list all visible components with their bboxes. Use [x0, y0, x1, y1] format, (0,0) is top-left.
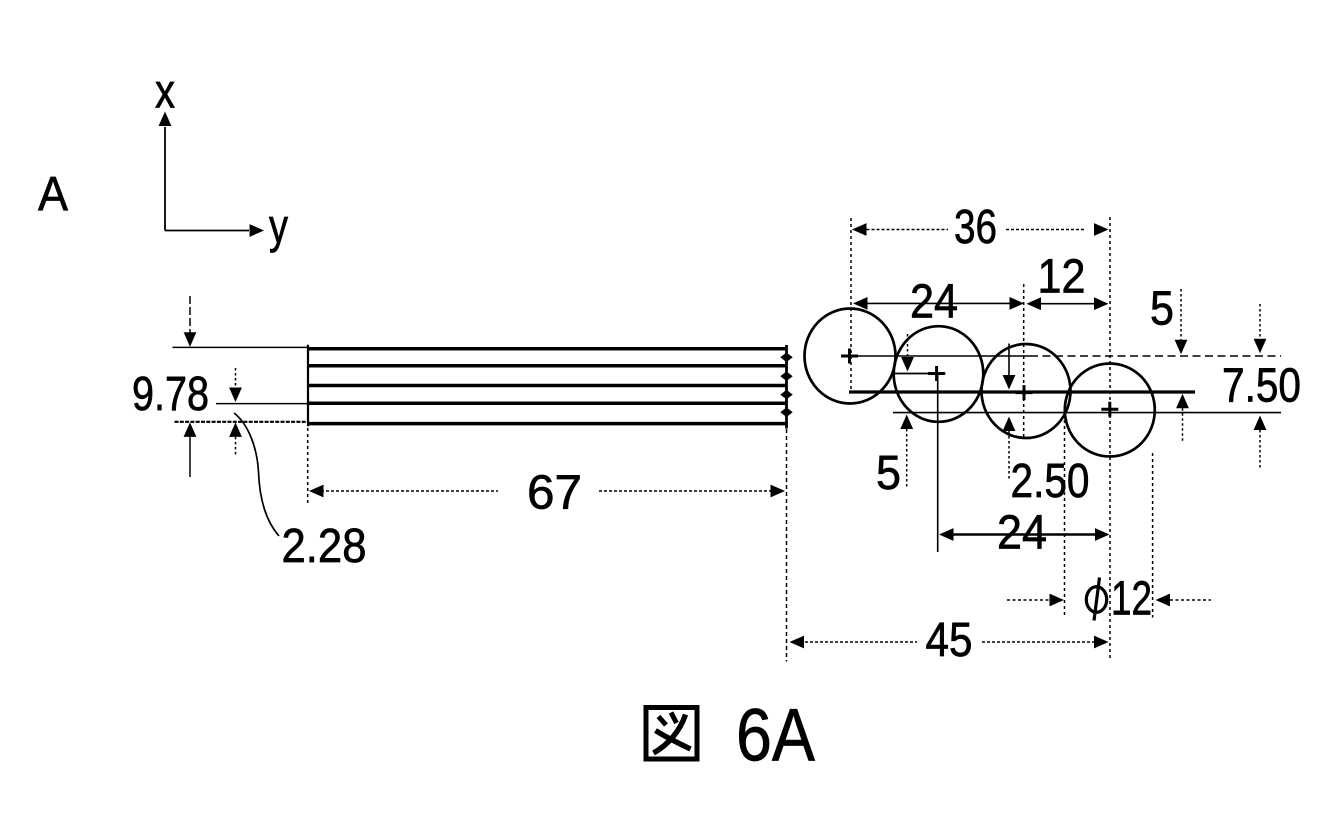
circle 4 (hole phi-12): [1065, 364, 1155, 457]
bar right edge diamond 4: [780, 407, 792, 417]
vertical extension at circle 3 centre x=1023.7: [1023, 284, 1025, 438]
dim 2.50 down arrowhead: [1003, 375, 1016, 390]
circle 2 center cross: [928, 366, 945, 381]
dim 36 line right segment: [1006, 229, 1086, 231]
vertical extension at circle 1 centre x=851: [850, 218, 852, 391]
dim 7.50 up arrowhead: [1254, 416, 1267, 431]
bar right edge diamond 3: [780, 390, 792, 400]
dim 36 left arrowhead: [852, 223, 867, 236]
svg-text:y: y: [269, 201, 288, 254]
dim 12 left arrowhead: [1027, 297, 1042, 310]
svg-text:36: 36: [954, 201, 997, 254]
circle 4 centre line y=412.6: [893, 412, 1281, 414]
dim 24 top line: [866, 302, 1011, 304]
dim 5 lower left up arrow tail: [906, 429, 908, 488]
dim phi12 left arrowhead: [1050, 594, 1065, 607]
caption kanji ZU box: [646, 708, 697, 760]
vertical extension at circle 4 right edge x=1152.6: [1152, 453, 1154, 618]
circle 3 (hole phi-12): [982, 344, 1071, 438]
circle 1 centre line y=356 dashed part: [1030, 355, 1281, 357]
dim 9.78 upper arrow tail: [189, 296, 191, 333]
dim 2.50 up arrow tail: [1008, 431, 1010, 479]
svg-text:7.50: 7.50: [1222, 360, 1301, 413]
dim 2.50 up arrowhead: [1003, 417, 1016, 432]
dim 7.50 down arrowhead: [1254, 339, 1267, 354]
svg-text:2.28: 2.28: [282, 520, 367, 573]
bar right extension line down to 45 dim: [786, 429, 788, 662]
svg-text:45: 45: [926, 614, 973, 667]
circle 3 centre thick line y=392: [849, 390, 1195, 393]
dim 45 line right segment: [982, 641, 1105, 643]
svg-text:67: 67: [527, 467, 582, 520]
caption kanji inner tick 2: [671, 713, 677, 724]
svg-text:9.78: 9.78: [132, 368, 209, 421]
circle 1 centre line y=356 solid part: [843, 355, 1030, 357]
dim 45 left arrowhead: [790, 636, 805, 649]
dim 67 left arrowhead: [309, 485, 324, 498]
dim 7.50 down arrow tail: [1259, 304, 1261, 340]
bar line 4: [308, 402, 787, 406]
dim phi12 left arrow tail: [1007, 599, 1049, 601]
dim 2.28 upper arrowhead: [229, 388, 242, 403]
dim 24 top right arrowhead: [1010, 297, 1025, 310]
circle 4 center cross: [1101, 402, 1118, 417]
dim 24 top left arrowhead: [853, 297, 868, 310]
dim 2.28 lower arrowhead: [229, 422, 242, 437]
vertical extension at circle 4 left edge x=1064.5: [1064, 420, 1066, 618]
dim 2.28 middle extension line: [216, 403, 308, 405]
svg-text:24: 24: [997, 507, 1047, 560]
dim 24 bottom left arrowhead: [939, 528, 954, 541]
dim 67 line right segment: [599, 490, 783, 492]
dim 2.50 down arrow tail: [1008, 344, 1010, 377]
dim 5 lower left up arrowhead: [900, 415, 913, 430]
dim 24 bottom right arrowhead: [1095, 528, 1110, 541]
circle 2 centre short line y=373.5: [894, 373, 946, 375]
y-axis arrowhead: [250, 224, 265, 237]
svg-text:12: 12: [1038, 251, 1086, 304]
y-axis line: [165, 230, 249, 232]
circle 2 (hole phi-12): [894, 326, 984, 422]
dim 12 right arrowhead: [1094, 297, 1109, 310]
caption kanji inner tick 1: [659, 717, 667, 726]
svg-text:5: 5: [876, 447, 901, 500]
svg-text:24: 24: [910, 276, 958, 329]
circle 3 center cross: [1016, 385, 1033, 400]
dim 5 upper right up arrow tail: [1182, 408, 1184, 443]
dim 9.78 lower arrowhead: [184, 422, 197, 437]
dim 2.28 lower arrow tail: [235, 437, 237, 455]
dim 9.78 upper arrowhead: [184, 332, 197, 347]
dim 67 line left segment: [311, 490, 498, 492]
x-axis arrowhead: [159, 112, 172, 127]
svg-text:12: 12: [1111, 573, 1152, 626]
bar right edge diamond 1: [780, 353, 792, 363]
dim 5 upper right down arrow tail: [1180, 289, 1182, 341]
phi symbol of dim phi12: [1086, 587, 1106, 613]
dim phi12 right arrowhead: [1156, 594, 1171, 607]
svg-text:5: 5: [1150, 283, 1174, 336]
dim 9.78 bottom extension line: [175, 421, 309, 423]
dim 5 upper right down arrowhead: [1175, 340, 1188, 355]
svg-text:x: x: [155, 66, 175, 119]
dim 67 left extension line: [307, 428, 309, 506]
dim 67 right arrowhead: [771, 485, 786, 498]
dim 36 right arrowhead: [1094, 223, 1109, 236]
dim 24 bottom line: [951, 533, 1097, 535]
circle 1 (hole phi-12): [805, 309, 896, 404]
bar line 1: [308, 347, 787, 351]
dim 12 line: [1040, 303, 1095, 305]
caption kanji long falling diagonal: [654, 715, 686, 754]
svg-text:6A: 6A: [736, 694, 815, 777]
bar right edge diamond 2: [780, 371, 792, 381]
coordinate axes x/y: [155, 66, 288, 254]
dim 9.78 top extension line: [173, 346, 309, 348]
dim 36 line left segment: [867, 229, 949, 231]
dim 9.78 lower arrow tail: [189, 437, 191, 477]
bar line 3: [308, 384, 787, 388]
vertical extension at circle 4 centre x=1110: [1109, 217, 1111, 661]
bar line 2: [308, 364, 787, 368]
caption kanji right-falling stroke: [656, 731, 691, 750]
dim 45 right arrowhead: [1094, 636, 1109, 649]
dim 2.28 upper arrow tail: [235, 368, 237, 389]
bar right edge: [785, 345, 788, 429]
x-axis line: [164, 127, 166, 231]
bar line 5: [308, 422, 787, 426]
circle 1 center cross: [841, 349, 858, 364]
svg-text:A: A: [38, 168, 68, 221]
dim 45 line left segment: [795, 641, 917, 643]
dim 7.50 up arrow tail: [1259, 430, 1261, 468]
dim 5 lower left down arrow tail: [907, 334, 909, 358]
dim 2.28 leader curve: [234, 413, 279, 536]
dim phi12 right arrow tail: [1170, 599, 1211, 601]
dim 5 upper right up arrowhead: [1176, 394, 1189, 409]
vertical extension at circle 2 centre x=937.7: [937, 374, 939, 552]
bar left edge: [307, 345, 309, 426]
dim 5 lower left down arrowhead: [901, 357, 914, 372]
svg-text:2.50: 2.50: [1011, 455, 1090, 508]
